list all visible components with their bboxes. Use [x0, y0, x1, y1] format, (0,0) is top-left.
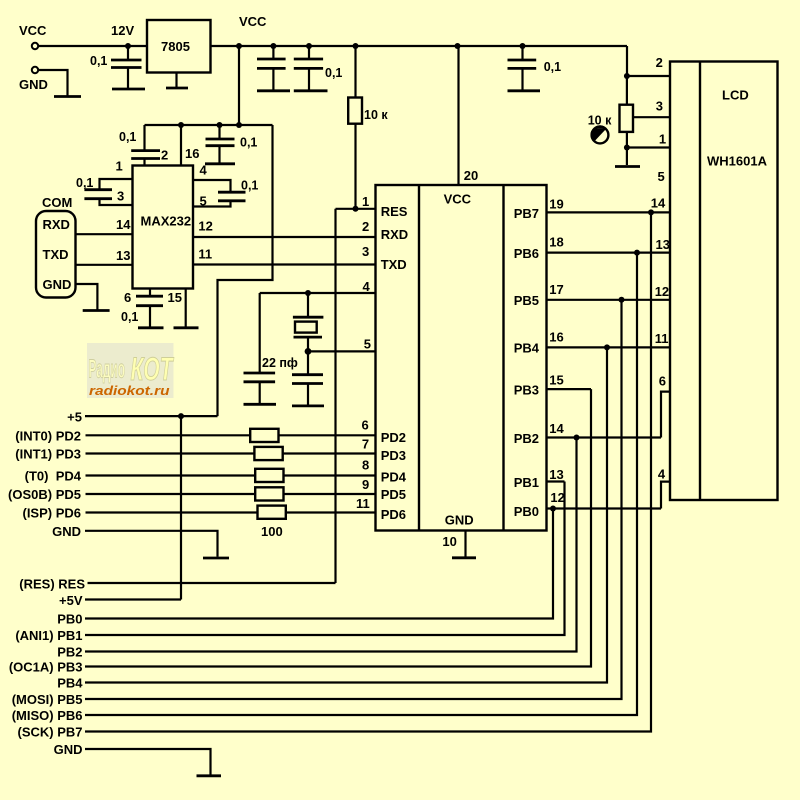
ground (input): [54, 95, 81, 98]
svg-text:(OS0B) PD5: (OS0B) PD5: [8, 487, 81, 502]
svg-text:0,1: 0,1: [90, 54, 107, 68]
capacitor C6 0,1 (VCC decoupling): [206, 125, 258, 163]
pin 5 wire: [193, 194, 231, 209]
IC U1 MAX232: [133, 166, 194, 289]
svg-text:(RES) RES: (RES) RES: [19, 577, 85, 592]
svg-text:(INT0) PD2: (INT0) PD2: [15, 429, 81, 444]
svg-text:GND: GND: [445, 513, 474, 528]
node PB4 drop: [604, 344, 610, 350]
wire LCD pin 6 jog: [661, 392, 670, 438]
wire PB2: [85, 438, 577, 652]
ground (C11): [292, 404, 324, 407]
svg-text:0,1: 0,1: [119, 130, 136, 144]
wire +5: [85, 415, 218, 417]
wire PB4: [85, 347, 607, 682]
svg-text:0,1: 0,1: [544, 60, 561, 74]
MCU left pin numbers: [356, 417, 370, 511]
MCU pin 20 VCC stem: [459, 46, 479, 185]
capacitor C1 0,1 (12V input): [90, 46, 142, 88]
ground (LCD contrast): [615, 165, 640, 168]
voltage regulator 7805: [147, 20, 211, 73]
pin 16 stem: [181, 125, 199, 166]
svg-text:VCC: VCC: [239, 14, 267, 29]
svg-text:5: 5: [364, 336, 371, 351]
svg-text:PD3: PD3: [381, 448, 406, 463]
node R1-RES: [353, 206, 359, 212]
svg-text:WH1601A: WH1601A: [707, 154, 768, 169]
pin 1 wire: [100, 159, 133, 189]
svg-text:(MOSI) PB5: (MOSI) PB5: [12, 692, 83, 707]
svg-text:GND: GND: [54, 742, 83, 757]
svg-text:14: 14: [116, 217, 131, 232]
svg-text:(INT1) PD3: (INT1) PD3: [15, 447, 81, 462]
svg-text:10 к: 10 к: [364, 108, 388, 122]
wire MAX232 VCC bus: [145, 124, 273, 126]
ground (7805): [166, 73, 188, 89]
LCD module WH1601A: [670, 62, 778, 501]
svg-text:GND: GND: [19, 77, 48, 92]
svg-text:5: 5: [658, 169, 665, 184]
watermark РадиоКОТ: [87, 343, 174, 398]
wire VCC drop to MAX232: [238, 46, 240, 125]
wire RES riser: [334, 209, 336, 583]
node PB0 drop: [550, 506, 556, 512]
svg-text:1: 1: [362, 194, 369, 209]
svg-text:13: 13: [656, 237, 670, 252]
node PB6 drop: [634, 250, 640, 256]
svg-text:TXD: TXD: [381, 257, 407, 272]
ground (C4): [508, 89, 541, 92]
svg-text:2: 2: [362, 219, 369, 234]
wire to LCD pin 1: [627, 146, 670, 148]
ground (MCU): [452, 556, 476, 559]
svg-text:PD4: PD4: [381, 470, 407, 485]
svg-text:17: 17: [549, 282, 563, 297]
pin 15 stem to ground: [168, 289, 186, 327]
wire GND mid: [85, 531, 218, 557]
svg-text:11: 11: [655, 331, 669, 346]
svg-text:0,1: 0,1: [76, 176, 93, 190]
node bus-C6: [217, 122, 223, 128]
node PB7 drop: [648, 209, 654, 215]
terminal VCC input: [19, 23, 47, 49]
svg-text:4: 4: [200, 163, 208, 178]
svg-text:PB1: PB1: [514, 475, 539, 490]
svg-text:12: 12: [198, 219, 212, 234]
svg-text:16: 16: [549, 330, 563, 345]
svg-text:PB2: PB2: [57, 645, 82, 660]
IC U2 MCU box: [376, 185, 547, 531]
wire RES: [88, 582, 336, 584]
svg-text:VCC: VCC: [444, 192, 472, 207]
svg-text:0,1: 0,1: [240, 136, 257, 150]
svg-text:18: 18: [549, 235, 563, 250]
resistor R3 100 (PD2): [86, 429, 376, 442]
capacitor C7 0,1 (pins 1-3): [76, 176, 112, 199]
node bus-drop: [236, 122, 242, 128]
svg-text:11: 11: [198, 246, 212, 261]
svg-text:(MISO) PB6: (MISO) PB6: [12, 708, 83, 723]
svg-text:КОТ: КОТ: [131, 351, 175, 387]
svg-text:4: 4: [363, 279, 371, 294]
svg-text:2: 2: [161, 148, 168, 163]
node bus-pin16: [178, 122, 184, 128]
wire MCU pin 5 (XTAL2): [308, 336, 376, 351]
svg-text:+5: +5: [67, 410, 82, 425]
wire COM GND: [76, 284, 98, 310]
wire GND input: [39, 70, 68, 96]
svg-text:Радио: Радио: [89, 354, 126, 384]
svg-text:RES: RES: [381, 204, 408, 219]
connector COM: [36, 195, 76, 298]
svg-text:MAX232: MAX232: [141, 214, 192, 229]
node rail-MAX232: [236, 43, 242, 49]
wire MCU pin 1 (RES): [336, 194, 376, 209]
svg-text:0,1: 0,1: [121, 310, 138, 324]
pin 12 wire (MAX232 to MCU RXD): [193, 219, 376, 238]
svg-text:GND: GND: [43, 277, 72, 292]
svg-text:19: 19: [549, 197, 563, 212]
node 12V: [111, 23, 134, 49]
ground (C1): [112, 88, 145, 91]
svg-text:(ANI1) PB1: (ANI1) PB1: [15, 628, 82, 643]
svg-text:PB3: PB3: [514, 383, 539, 398]
wire +5V top rail: [211, 45, 628, 47]
wire MCU pin 4 (XTAL1): [260, 279, 376, 294]
svg-text:PB7: PB7: [514, 206, 539, 221]
svg-text:7: 7: [362, 437, 369, 452]
svg-text:RXD: RXD: [381, 227, 408, 242]
svg-text:8: 8: [362, 457, 369, 472]
svg-text:1: 1: [116, 159, 123, 174]
resistor R1 10k: [348, 46, 388, 209]
wire PB0: [85, 509, 553, 619]
capacitor C2 0,1: [257, 46, 286, 90]
wire PB7: [85, 212, 651, 731]
capacitor C3 0,1: [294, 46, 343, 90]
svg-text:PD6: PD6: [381, 507, 406, 522]
wire PB6: [85, 253, 637, 715]
svg-text:PB6: PB6: [514, 246, 539, 261]
wire +5V vertical link: [180, 416, 182, 599]
svg-text:3: 3: [117, 189, 124, 204]
terminal GND input: [19, 67, 48, 92]
svg-text:6: 6: [362, 417, 369, 432]
svg-text:6: 6: [659, 374, 666, 389]
node rail-C4: [520, 43, 526, 49]
trimmer resistor R2 10k: [588, 76, 633, 165]
svg-text:14: 14: [549, 421, 564, 436]
wire +5V: [85, 598, 181, 600]
ground (C10): [244, 403, 277, 406]
ground (bottom): [197, 774, 222, 777]
pin 11 wire (MAX232 to MCU TXD): [193, 246, 376, 264]
pin 3 wire: [100, 189, 133, 206]
svg-text:14: 14: [651, 196, 666, 211]
ground (C9): [138, 326, 164, 329]
ground (C3): [294, 89, 328, 92]
svg-text:PD2: PD2: [381, 430, 406, 445]
capacitor C11 22pf (right): [292, 351, 323, 404]
wire COM RXD to pin 14: [76, 217, 133, 234]
node LCD pin2/R2: [624, 73, 630, 79]
ground (COM): [83, 309, 110, 312]
svg-text:+5V: +5V: [59, 593, 83, 608]
svg-text:10: 10: [442, 534, 456, 549]
svg-text:(T0) PD4: (T0) PD4: [25, 469, 82, 484]
svg-text:COM: COM: [42, 195, 72, 210]
resistor R5 100 (PD4): [86, 469, 376, 482]
svg-text:(OC1A) PB3: (OC1A) PB3: [9, 660, 83, 675]
crystal ZQ1: [293, 293, 324, 351]
svg-text:TXD: TXD: [43, 247, 69, 262]
ground (mid): [203, 557, 229, 560]
MCU pin 10 GND stem: [442, 531, 465, 557]
wire PB3: [85, 389, 591, 666]
svg-text:12V: 12V: [111, 23, 134, 38]
svg-text:16: 16: [185, 146, 199, 161]
svg-text:6: 6: [124, 290, 131, 305]
capacitor C10 22pf (left): [244, 293, 298, 403]
svg-text:12: 12: [655, 284, 669, 299]
node PB5 drop: [619, 297, 625, 303]
svg-text:9: 9: [362, 477, 369, 492]
svg-text:15: 15: [549, 372, 563, 387]
svg-text:20: 20: [464, 168, 478, 183]
svg-text:15: 15: [168, 290, 182, 305]
svg-text:0,1: 0,1: [241, 179, 258, 193]
node crystal top: [305, 290, 311, 296]
svg-text:13: 13: [116, 248, 130, 263]
wire COM TXD to pin 13: [76, 248, 133, 265]
svg-text:PB5: PB5: [514, 293, 539, 308]
capacitor C9 0,1 (pin 6): [121, 289, 163, 327]
svg-text:11: 11: [356, 496, 370, 511]
wire LCD pin 4 jog: [661, 482, 670, 509]
svg-text:12: 12: [550, 490, 564, 505]
ground (C6): [205, 162, 235, 165]
svg-text:PB0: PB0: [514, 504, 539, 519]
resistor R7 100 (PD6): [86, 506, 376, 539]
svg-text:PB0: PB0: [57, 612, 82, 627]
svg-text:0,1: 0,1: [325, 66, 342, 80]
node rail-C3: [306, 43, 312, 49]
svg-text:100: 100: [261, 524, 283, 539]
capacitor C8 0,1 (pins 4-5): [218, 179, 258, 201]
svg-text:GND: GND: [52, 524, 81, 539]
svg-text:PB4: PB4: [514, 341, 540, 356]
svg-text:4: 4: [658, 467, 666, 482]
svg-text:2: 2: [656, 55, 663, 70]
svg-text:LCD: LCD: [722, 88, 749, 103]
ground (pin 15): [174, 326, 199, 329]
LCD pin number labels: [651, 55, 670, 482]
capacitor C5 0,1 (pin 2): [119, 125, 168, 166]
wire R2 wiper to LCD pin 3: [633, 116, 670, 118]
wire +5 riser: [218, 125, 273, 416]
node rail-R1: [353, 43, 359, 49]
pin 4 wire: [193, 163, 231, 192]
node crystal bottom: [305, 348, 312, 355]
node +5 riser: [178, 413, 184, 419]
svg-text:PD5: PD5: [381, 487, 406, 502]
node LCD pin 1: [624, 145, 630, 151]
svg-text:1: 1: [659, 132, 666, 147]
svg-text:(ISP) PD6: (ISP) PD6: [22, 506, 81, 521]
wire PB5: [85, 300, 622, 699]
node PB2 drop: [574, 435, 580, 441]
svg-text:7805: 7805: [161, 39, 190, 54]
trimmer adjust symbol: [591, 125, 609, 143]
ground (C2): [257, 89, 290, 92]
wire PB1: [85, 482, 565, 636]
svg-text:3: 3: [362, 244, 369, 259]
svg-text:radiokot.ru: radiokot.ru: [89, 383, 170, 398]
svg-text:PB2: PB2: [514, 431, 539, 446]
capacitor C4 0,1: [508, 46, 562, 90]
node rail-MCU: [455, 43, 461, 49]
resistor R6 100 (PD5): [86, 487, 376, 500]
wire VCC input to 7805: [39, 45, 148, 47]
svg-text:13: 13: [549, 467, 563, 482]
node rail-C2: [270, 43, 276, 49]
svg-text:22 пф: 22 пф: [262, 356, 298, 370]
resistor R4 100 (PD3): [86, 447, 376, 460]
MCU right pin wires: [547, 197, 671, 509]
svg-text:(SCK) PB7: (SCK) PB7: [17, 725, 82, 740]
svg-text:3: 3: [656, 99, 663, 114]
wire VCC to LCD pin 2: [627, 46, 670, 76]
svg-text:PB4: PB4: [57, 676, 83, 691]
wire GND bottom: [85, 749, 211, 775]
svg-text:VCC: VCC: [19, 23, 47, 38]
svg-text:RXD: RXD: [43, 217, 70, 232]
